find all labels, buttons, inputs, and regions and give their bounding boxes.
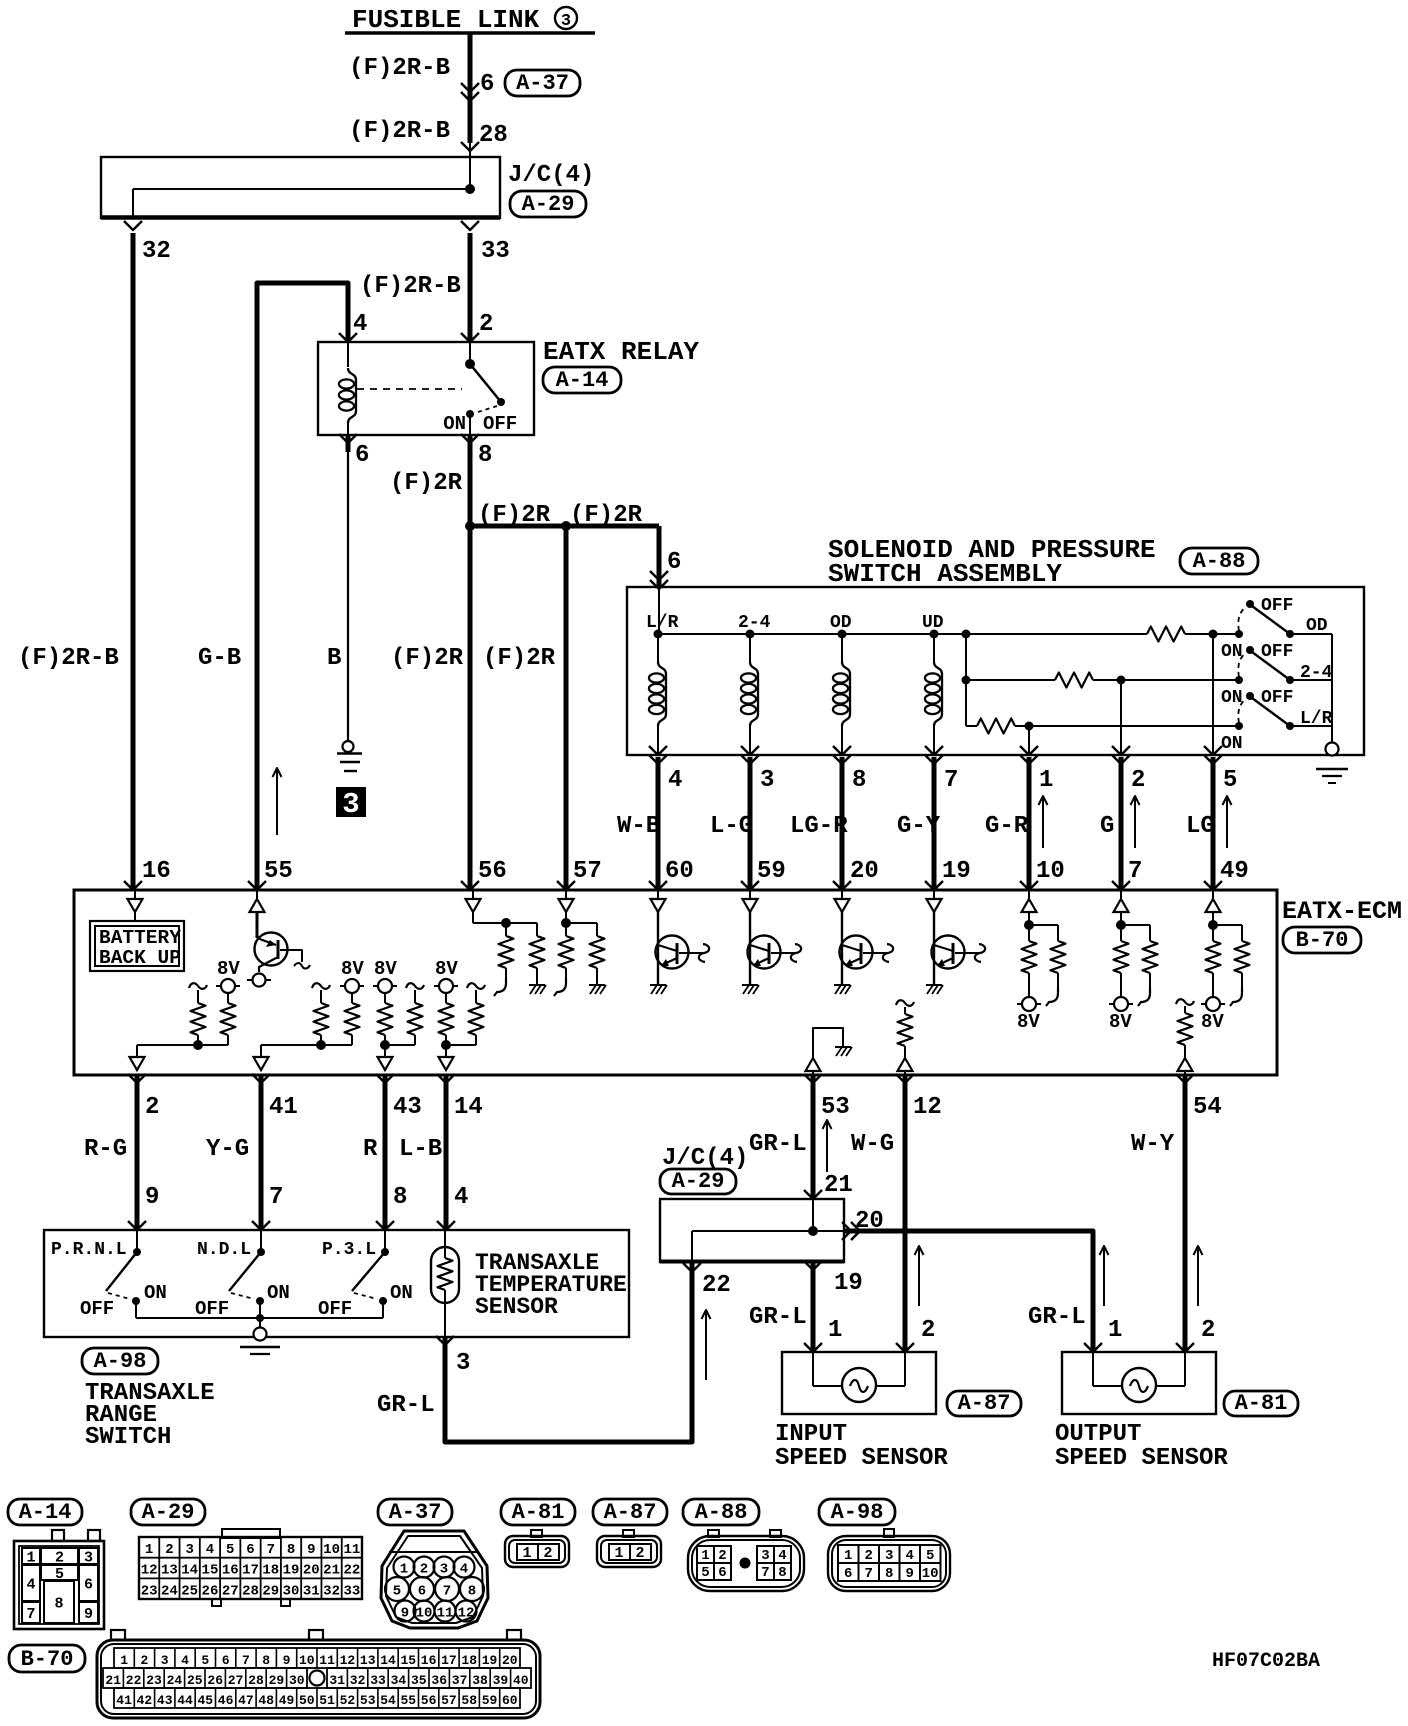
svg-text:43: 43	[393, 1094, 422, 1121]
ECM pin 41 pull-up network	[261, 1044, 352, 1046]
ECM pin 57 input network	[565, 890, 567, 899]
pin 20 chevron	[833, 881, 851, 890]
svg-text:14: 14	[380, 1653, 396, 1668]
svg-text:6: 6	[355, 442, 369, 469]
pin 16 chevron	[124, 881, 142, 890]
svg-text:7: 7	[761, 1565, 769, 1581]
svg-text:9: 9	[145, 1184, 159, 1211]
svg-text:7: 7	[443, 1584, 451, 1600]
junction block J/C(4) A-29 top box	[101, 157, 500, 218]
svg-text:B: B	[327, 645, 341, 672]
svg-text:9: 9	[905, 1566, 913, 1582]
connector ref A-29 bottom	[131, 1499, 205, 1525]
svg-text:6: 6	[844, 1566, 852, 1582]
svg-text:27: 27	[228, 1673, 244, 1688]
svg-text:2: 2	[864, 1548, 872, 1564]
svg-text:20: 20	[502, 1653, 518, 1668]
svg-text:SPEED SENSOR: SPEED SENSOR	[775, 1445, 948, 1472]
svg-text:13: 13	[161, 1563, 178, 1579]
ECM output transistor pin 60	[657, 890, 659, 899]
svg-text:2: 2	[718, 1548, 726, 1564]
svg-text:3: 3	[84, 1550, 93, 1567]
svg-text:ON: ON	[443, 413, 466, 435]
wire GR-L J/C to input sensor pin 1	[811, 1262, 816, 1352]
svg-text:A-98: A-98	[831, 1500, 884, 1525]
svg-text:8V: 8V	[435, 958, 458, 980]
connector ref A-14 bottom	[8, 1499, 82, 1525]
svg-text:30: 30	[289, 1673, 305, 1688]
pressure switch ground	[1326, 743, 1339, 756]
svg-text:EATX RELAY: EATX RELAY	[543, 337, 699, 367]
svg-text:28: 28	[248, 1673, 264, 1688]
ECM pin 12 internal resistor	[896, 1000, 914, 1006]
wire pressure switch pin 1	[1028, 726, 1030, 755]
svg-text:G-Y: G-Y	[897, 813, 941, 840]
ECM input network pin 7	[1120, 890, 1122, 899]
svg-text:12: 12	[913, 1094, 942, 1121]
wire L-B ECM pin 14 to range switch	[444, 1075, 449, 1230]
svg-text:3: 3	[161, 1653, 169, 1668]
svg-text:18: 18	[461, 1653, 477, 1668]
range switch contact P.3.L	[384, 1230, 386, 1252]
svg-text:G: G	[1100, 813, 1114, 840]
node solenoid UD	[930, 630, 939, 639]
ECM pin 14 pull-up network	[446, 1044, 476, 1046]
svg-text:4: 4	[905, 1548, 913, 1564]
connector ref A-87 bottom	[593, 1499, 667, 1525]
svg-text:41: 41	[116, 1693, 132, 1708]
range switch contact P.R.N.L	[136, 1230, 138, 1252]
svg-text:G-R: G-R	[985, 813, 1029, 840]
temp sensor pin 3 chevron	[436, 1336, 454, 1345]
J/C internal bus	[133, 188, 470, 190]
ECM pin 2 pull-up network	[137, 1044, 228, 1046]
svg-text:2: 2	[420, 1562, 428, 1578]
svg-text:21: 21	[824, 1172, 853, 1199]
svg-text:OFF: OFF	[80, 1298, 114, 1320]
junction node (F)2R second	[561, 521, 571, 531]
svg-text:A-81: A-81	[512, 1500, 565, 1525]
svg-text:3: 3	[456, 1350, 470, 1377]
svg-text:A-98: A-98	[94, 1349, 147, 1374]
ECM pin 53 internal ground	[813, 1028, 843, 1058]
svg-text:10: 10	[299, 1653, 315, 1668]
ground for wire B	[343, 741, 354, 752]
svg-text:8: 8	[287, 1542, 295, 1558]
node pin1 row3	[1025, 722, 1034, 731]
connector B-70 pinout	[97, 1640, 540, 1718]
resistor pressure switch 2-4 row	[966, 679, 1055, 681]
connector ref A-88 bottom	[683, 1499, 759, 1525]
pin 59 chevron	[741, 881, 759, 890]
svg-text:2: 2	[1131, 767, 1145, 794]
svg-text:W-Y: W-Y	[1131, 1131, 1175, 1158]
wire G-B corner to EATX relay pin 4	[257, 283, 348, 890]
chevron into J/C(4)	[461, 142, 479, 151]
svg-text:32: 32	[350, 1673, 366, 1688]
transaxle range switch box A-98	[44, 1230, 629, 1337]
svg-text:16: 16	[421, 1653, 437, 1668]
svg-text:A-88: A-88	[1193, 549, 1246, 574]
svg-text:9: 9	[84, 1606, 93, 1623]
pin 55 chevron	[248, 881, 266, 890]
ECM output transistor pin 19	[933, 890, 935, 899]
pin 55 base network	[280, 950, 302, 962]
svg-text:OUTPUT: OUTPUT	[1055, 1421, 1141, 1448]
svg-text:ON: ON	[390, 1282, 413, 1304]
svg-text:14: 14	[181, 1563, 198, 1579]
svg-text:17: 17	[242, 1563, 259, 1579]
svg-text:OFF: OFF	[318, 1298, 352, 1320]
svg-text:4: 4	[181, 1653, 189, 1668]
svg-text:SWITCH: SWITCH	[85, 1424, 171, 1451]
svg-text:31: 31	[303, 1583, 320, 1599]
connector ref A-14	[543, 367, 621, 393]
connector A-29 pinout	[222, 1529, 280, 1538]
relay pin 4 chevron	[339, 333, 357, 342]
svg-text:4: 4	[668, 767, 682, 794]
svg-text:10: 10	[922, 1566, 939, 1582]
svg-text:3: 3	[561, 12, 571, 31]
relay pin 8 chevron	[461, 434, 479, 443]
svg-text:GR-L: GR-L	[749, 1131, 807, 1158]
output sensor internal	[1092, 1352, 1094, 1386]
svg-text:4: 4	[206, 1542, 214, 1558]
svg-text:9: 9	[283, 1653, 291, 1668]
svg-text:31: 31	[329, 1673, 345, 1688]
svg-text:A-87: A-87	[958, 1391, 1011, 1416]
svg-text:5: 5	[926, 1548, 934, 1564]
svg-text:OD: OD	[1306, 616, 1328, 636]
svg-text:ON: ON	[1221, 734, 1243, 754]
wire (F)2R horizontal branch	[470, 524, 659, 529]
svg-text:54: 54	[1193, 1094, 1222, 1121]
connector A-88 pinout	[688, 1536, 804, 1591]
svg-text:22: 22	[702, 1272, 731, 1299]
svg-text:28: 28	[479, 122, 508, 149]
range switch ground	[259, 1318, 261, 1330]
wire G-Y solenoid to ECM pin 19	[932, 757, 937, 890]
svg-text:51: 51	[319, 1693, 335, 1708]
svg-text:19: 19	[283, 1563, 300, 1579]
ECM pin 54 internal resistor	[1176, 999, 1194, 1005]
svg-text:A-87: A-87	[604, 1500, 657, 1525]
svg-text:4: 4	[26, 1577, 35, 1594]
svg-text:L-G: L-G	[710, 813, 753, 840]
svg-text:ON: ON	[267, 1282, 290, 1304]
svg-text:A-29: A-29	[522, 192, 575, 217]
svg-text:GR-L: GR-L	[749, 1304, 807, 1331]
ECM output transistor pin 20	[841, 890, 843, 899]
svg-text:24: 24	[167, 1673, 183, 1688]
relay coil	[348, 368, 356, 423]
wire into J/C(4)	[469, 143, 471, 189]
svg-text:53: 53	[360, 1693, 376, 1708]
svg-text:1: 1	[701, 1548, 709, 1564]
svg-text:R: R	[363, 1136, 378, 1163]
svg-text:8: 8	[262, 1653, 270, 1668]
range switch common bus	[136, 1317, 383, 1319]
svg-text:B-70: B-70	[1296, 928, 1349, 953]
pin 33 chevron	[461, 221, 479, 230]
svg-text:23: 23	[146, 1673, 162, 1688]
svg-text:OFF: OFF	[1261, 688, 1293, 708]
battery back up block	[90, 921, 184, 971]
ECM input network pin 10	[1028, 890, 1030, 899]
svg-text:L-B: L-B	[399, 1136, 442, 1163]
pressure switch 2-4	[1235, 676, 1243, 684]
svg-text:1: 1	[1039, 767, 1053, 794]
svg-text:2-4: 2-4	[738, 613, 771, 633]
svg-text:BATTERY: BATTERY	[99, 927, 181, 949]
svg-text:10: 10	[416, 1606, 433, 1622]
svg-text:2: 2	[55, 1550, 64, 1567]
wire GR-L ECM pin 53 to J/C	[811, 1075, 816, 1199]
svg-text:OFF: OFF	[195, 1298, 229, 1320]
relay pin 2 chevron	[461, 333, 479, 342]
solenoid supply bus	[658, 633, 966, 635]
input speed sensor box A-87	[782, 1352, 936, 1414]
input sensor internal	[812, 1352, 814, 1386]
relay ON contact	[466, 410, 474, 418]
connector A-87 pinout	[597, 1536, 661, 1567]
svg-text:8V: 8V	[374, 958, 397, 980]
svg-text:A-29: A-29	[142, 1500, 195, 1525]
svg-text:10: 10	[323, 1542, 340, 1558]
svg-text:2: 2	[635, 1545, 644, 1562]
wire (F)2R-B from fusible link to A-37	[468, 33, 473, 143]
svg-text:19: 19	[942, 858, 971, 885]
svg-text:2: 2	[543, 1545, 552, 1562]
svg-text:(F)2R-B: (F)2R-B	[349, 55, 450, 82]
svg-text:L/R: L/R	[646, 613, 679, 633]
connector A-37 in-line crossing	[461, 83, 479, 92]
EATX-ECM box B-70	[74, 890, 1277, 1075]
ECM input network pin 49	[1212, 890, 1214, 899]
connector A-37 pinout	[381, 1531, 488, 1628]
wire GR-L junction to temp sensor	[445, 1262, 692, 1442]
svg-text:6: 6	[418, 1584, 426, 1600]
svg-text:7: 7	[267, 1542, 275, 1558]
svg-text:6: 6	[480, 71, 494, 98]
svg-text:59: 59	[482, 1693, 498, 1708]
svg-text:1: 1	[400, 1562, 408, 1578]
svg-text:LG-R: LG-R	[790, 813, 848, 840]
svg-text:33: 33	[370, 1673, 386, 1688]
connector ref A-81 bottom	[501, 1499, 575, 1525]
svg-text:6: 6	[718, 1565, 726, 1581]
svg-text:5: 5	[201, 1653, 209, 1668]
relay coil lead	[347, 342, 349, 367]
svg-text:50: 50	[299, 1693, 315, 1708]
node solenoid OD	[838, 630, 847, 639]
wire LG solenoid to ECM pin 49	[1211, 757, 1216, 890]
svg-text:44: 44	[177, 1693, 193, 1708]
transaxle temperature sensor	[431, 1247, 459, 1303]
svg-text:UD: UD	[922, 613, 944, 633]
connector ref A-37	[505, 70, 580, 96]
svg-text:1: 1	[1108, 1317, 1122, 1344]
svg-text:40: 40	[513, 1673, 529, 1688]
svg-text:8: 8	[778, 1565, 786, 1581]
svg-text:8V: 8V	[217, 958, 240, 980]
direction arrow up wire 22	[705, 1310, 707, 1380]
svg-text:30: 30	[283, 1583, 300, 1599]
svg-text:8: 8	[468, 1584, 476, 1600]
svg-text:35: 35	[411, 1673, 427, 1688]
svg-text:(F)2R: (F)2R	[483, 645, 556, 672]
svg-text:3: 3	[760, 767, 774, 794]
svg-text:(F)2R: (F)2R	[391, 645, 464, 672]
svg-text:46: 46	[218, 1693, 234, 1708]
node row2	[962, 676, 971, 685]
svg-text:(F)2R: (F)2R	[570, 502, 643, 529]
svg-text:39: 39	[493, 1673, 509, 1688]
pin 10 chevron	[1020, 881, 1038, 890]
pin 60 chevron	[649, 881, 667, 890]
svg-text:59: 59	[757, 858, 786, 885]
svg-text:6: 6	[222, 1653, 230, 1668]
output speed sensor box A-81	[1062, 1352, 1216, 1414]
svg-text:47: 47	[238, 1693, 254, 1708]
svg-text:4: 4	[778, 1548, 786, 1564]
svg-text:12: 12	[141, 1563, 158, 1579]
svg-text:1: 1	[145, 1542, 153, 1558]
svg-text:8V: 8V	[341, 958, 364, 980]
resistor pressure switch OD row	[966, 633, 1147, 635]
resistor R-c	[312, 983, 330, 989]
svg-text:GR-L: GR-L	[1028, 1304, 1086, 1331]
svg-text:3: 3	[185, 1542, 193, 1558]
node pin5 row1	[1209, 630, 1218, 639]
svg-text:3: 3	[761, 1548, 769, 1564]
resistor R-f	[406, 983, 424, 989]
wire G-R solenoid to ECM pin 10	[1027, 757, 1032, 890]
svg-text:41: 41	[269, 1094, 298, 1121]
direction arrow up wire 53	[826, 1120, 828, 1172]
svg-text:5: 5	[393, 1584, 401, 1600]
wire W-Y ECM pin 54 to output speed sensor	[1183, 1075, 1188, 1352]
svg-text:16: 16	[142, 858, 171, 885]
svg-text:1: 1	[614, 1545, 623, 1562]
svg-text:B-70: B-70	[21, 1647, 74, 1672]
svg-text:33: 33	[343, 1583, 360, 1599]
svg-text:56: 56	[421, 1693, 437, 1708]
svg-text:25: 25	[181, 1583, 198, 1599]
svg-text:8: 8	[885, 1566, 893, 1582]
relay switch lead	[469, 342, 471, 364]
svg-text:48: 48	[258, 1693, 274, 1708]
ECM pin 56 input network	[472, 890, 474, 899]
wire R ECM pin 43 to range switch	[383, 1075, 388, 1230]
connector ref A-37 bottom	[378, 1499, 452, 1525]
connector ref A-98	[82, 1348, 158, 1374]
svg-text:29: 29	[269, 1673, 285, 1688]
svg-text:OFF: OFF	[1261, 642, 1293, 662]
pin 19 chevron	[925, 881, 943, 890]
direction arrow up	[1226, 796, 1228, 848]
solenoid feed wire inside box	[658, 587, 660, 634]
svg-text:57: 57	[573, 858, 602, 885]
pin 56 chevron	[461, 881, 479, 890]
svg-text:45: 45	[197, 1693, 213, 1708]
range switch contact N.D.L	[260, 1230, 262, 1252]
connector ref B-70 bottom	[9, 1645, 85, 1672]
svg-text:4: 4	[460, 1562, 468, 1578]
svg-text:1: 1	[828, 1317, 842, 1344]
solenoid coil L/R	[657, 634, 659, 662]
solenoid UD pin 7 chevrons	[925, 746, 943, 755]
svg-text:2: 2	[921, 1317, 935, 1344]
svg-text:32: 32	[323, 1583, 340, 1599]
svg-text:36: 36	[431, 1673, 447, 1688]
wire pressure switch pin 5	[1212, 634, 1214, 755]
svg-text:28: 28	[242, 1583, 259, 1599]
svg-text:LG: LG	[1186, 813, 1215, 840]
solenoid and pressure switch assembly box A-88	[627, 587, 1364, 755]
svg-text:A-14: A-14	[556, 368, 609, 393]
pressure switch OD	[1235, 630, 1243, 638]
svg-text:8V: 8V	[1017, 1011, 1040, 1033]
svg-text:SENSOR: SENSOR	[475, 1294, 558, 1320]
svg-text:53: 53	[821, 1094, 850, 1121]
svg-text:A-88: A-88	[695, 1500, 748, 1525]
svg-text:19: 19	[834, 1270, 863, 1297]
svg-text:21: 21	[105, 1673, 121, 1688]
svg-text:7: 7	[944, 767, 958, 794]
svg-text:(F)2R: (F)2R	[390, 470, 463, 497]
connector ref A-98 bottom	[819, 1499, 895, 1525]
svg-text:P.3.L: P.3.L	[322, 1240, 376, 1260]
svg-text:11: 11	[437, 1606, 454, 1622]
connector ref A-29 lower	[660, 1169, 736, 1194]
svg-text:1: 1	[120, 1653, 128, 1668]
svg-text:6: 6	[667, 549, 681, 576]
svg-text:6: 6	[84, 1577, 93, 1594]
svg-text:2: 2	[145, 1094, 159, 1121]
svg-text:55: 55	[400, 1693, 416, 1708]
svg-text:3: 3	[440, 1562, 448, 1578]
pressure switch L/R	[1235, 722, 1243, 730]
svg-text:(F)2R-B: (F)2R-B	[18, 645, 119, 672]
svg-text:33: 33	[481, 238, 510, 265]
J/C left leg	[132, 189, 134, 218]
svg-text:5: 5	[1223, 767, 1237, 794]
svg-text:15: 15	[400, 1653, 416, 1668]
svg-text:(F)2R-B: (F)2R-B	[349, 118, 450, 145]
direction arrow up wire 12	[918, 1246, 920, 1306]
wire GR-L to output speed sensor pin 1	[844, 1231, 1093, 1352]
pin 32 chevron	[124, 221, 142, 230]
svg-text:P.R.N.L: P.R.N.L	[51, 1240, 127, 1260]
resistor R-h	[467, 983, 485, 989]
svg-text:2: 2	[140, 1653, 148, 1668]
svg-text:7: 7	[269, 1184, 283, 1211]
J/C lower internal wire	[812, 1199, 814, 1231]
svg-text:13: 13	[360, 1653, 376, 1668]
junction block J/C(4) A-29 lower box	[660, 1199, 844, 1262]
svg-text:L/R: L/R	[1300, 709, 1333, 729]
wire W-G ECM pin 12 to input speed sensor	[903, 1075, 908, 1352]
svg-text:3: 3	[342, 788, 359, 821]
svg-text:20: 20	[303, 1563, 320, 1579]
junction node (F)2R	[465, 521, 475, 531]
svg-text:2: 2	[1201, 1317, 1215, 1344]
junction node in J/C	[465, 184, 475, 194]
wire R-G ECM pin 2 to range switch	[135, 1075, 140, 1230]
svg-text:INPUT: INPUT	[775, 1421, 847, 1448]
svg-text:42: 42	[137, 1693, 153, 1708]
